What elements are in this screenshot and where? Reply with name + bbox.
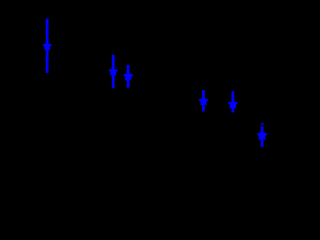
star marker E	[228, 99, 239, 109]
small point above marker F	[261, 123, 263, 125]
star marker F	[256, 130, 267, 141]
error bar A	[46, 18, 49, 73]
star marker B	[108, 66, 118, 76]
error bar B	[112, 55, 115, 89]
star marker A	[42, 41, 52, 50]
error bar E	[231, 91, 234, 112]
star marker C	[123, 71, 133, 81]
star marker D	[198, 96, 208, 106]
error bar C	[127, 65, 130, 88]
error bar F	[261, 126, 264, 147]
error bar D	[202, 90, 205, 112]
